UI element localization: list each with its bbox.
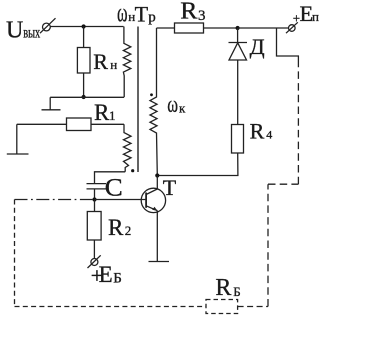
dashed wire middle horizontal: [268, 183, 298, 185]
wire R3 left: [157, 27, 175, 29]
node output/Rn: [82, 24, 86, 28]
svg-text:C: C: [105, 174, 123, 201]
resistor R2: [87, 212, 101, 241]
svg-text:2: 2: [125, 223, 132, 238]
svg-text:Б: Б: [113, 271, 122, 287]
label wn: [117, 0, 135, 27]
wire base node to R2: [94, 200, 96, 212]
phase dot wk: [150, 93, 153, 96]
resistor Rb dashed: [206, 300, 238, 314]
label R2: [108, 215, 131, 240]
capacitor C: [87, 184, 107, 189]
node R3/diode: [236, 26, 240, 30]
svg-text:R: R: [180, 0, 197, 25]
label wk: [167, 92, 186, 117]
svg-text:п: п: [312, 9, 319, 24]
wire R2 bottom: [93, 240, 95, 259]
wire base: [95, 199, 147, 201]
wire output top: [50, 26, 124, 28]
wire R1 left down: [16, 124, 18, 153]
ground 2: [7, 153, 29, 155]
label Uvyh: [6, 18, 40, 44]
svg-text:Д: Д: [250, 34, 265, 59]
node Rn bottom: [82, 95, 86, 99]
wire collector down: [156, 176, 158, 190]
wire winding to C: [95, 172, 126, 184]
transistor T: [141, 188, 165, 212]
resistor R4: [232, 125, 244, 154]
svg-text:R: R: [93, 49, 108, 74]
ground 1: [42, 97, 61, 110]
wire emitter: [156, 211, 158, 262]
svg-text:к: к: [179, 100, 186, 115]
supply terminal Ep: [286, 22, 298, 33]
wire bottom row: [50, 96, 124, 98]
node collector: [155, 173, 159, 177]
wire C bottom: [94, 189, 96, 200]
svg-text:ω: ω: [167, 92, 178, 117]
dashed wire right vertical lower: [267, 184, 269, 306]
wire R4 bottom: [157, 153, 238, 176]
winding wn upper: [123, 27, 130, 98]
dash-dot wire to base: [15, 199, 93, 201]
dashed wire right vertical upper: [297, 66, 299, 184]
wire Rn bottom: [83, 73, 85, 97]
svg-text:н: н: [110, 57, 117, 72]
output terminal: [40, 18, 56, 33]
svg-text:Т: Т: [163, 175, 177, 200]
wire R1 left: [17, 123, 67, 125]
diode D: [229, 43, 248, 61]
wire wk line with winding wk: [150, 28, 157, 175]
ground 3: [149, 261, 170, 263]
resistor R1: [67, 118, 92, 131]
resistor R3: [175, 23, 204, 33]
wire diode to R4: [237, 60, 239, 125]
dashed wire left vertical: [14, 200, 16, 307]
svg-text:1: 1: [109, 108, 116, 123]
svg-text:R: R: [215, 275, 231, 301]
wire solid branch to supply: [277, 28, 299, 66]
svg-text:Т: Т: [135, 2, 149, 27]
dashed wire bottom right: [238, 306, 268, 308]
wire Rn top: [83, 27, 85, 48]
label +Ep: [293, 1, 319, 26]
svg-text:3: 3: [198, 8, 206, 24]
svg-text:вых: вых: [23, 25, 40, 42]
label Rb: [215, 275, 240, 301]
wire R3 right: [204, 27, 238, 29]
phase dot wn: [131, 169, 134, 172]
wire diode top: [237, 28, 239, 43]
svg-text:R: R: [108, 215, 124, 240]
label Rn: [93, 49, 117, 74]
label R1: [94, 100, 116, 125]
node base: [92, 197, 96, 201]
svg-text:E: E: [99, 262, 113, 287]
winding wn lower: [124, 124, 132, 172]
dashed wire bottom left: [15, 306, 207, 308]
svg-text:ω: ω: [117, 0, 128, 27]
wire to supply terminal: [238, 27, 289, 29]
svg-text:4: 4: [266, 128, 272, 142]
label Tr: [135, 2, 156, 27]
transformer core: [137, 27, 139, 173]
svg-text:р: р: [148, 10, 156, 26]
resistor Rn: [77, 48, 90, 74]
label R4: [250, 119, 273, 144]
svg-text:R: R: [250, 119, 265, 144]
label R3: [180, 0, 205, 25]
svg-text:U: U: [6, 18, 23, 44]
svg-text:R: R: [94, 100, 110, 125]
label +Eb: [91, 262, 122, 288]
bias terminal Eb: [88, 255, 101, 268]
svg-text:Б: Б: [233, 284, 240, 299]
wire R1 right: [91, 123, 124, 125]
